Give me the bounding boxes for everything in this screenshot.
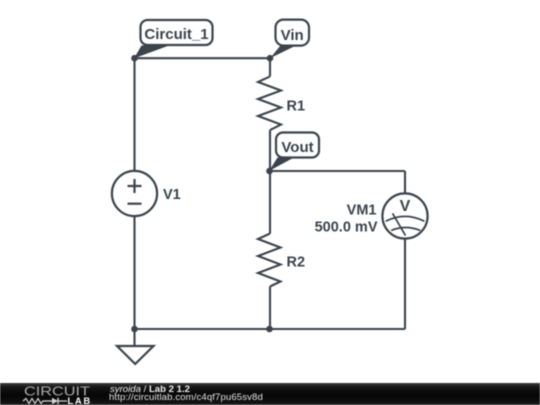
footer CircuitLab logo	[0, 383, 100, 405]
ground	[117, 346, 154, 364]
wire R2 bottom lead	[269, 287, 271, 330]
resistor R1	[258, 76, 281, 130]
svg-text:Vout: Vout	[281, 139, 313, 156]
svg-text:Vin: Vin	[281, 27, 304, 44]
svg-text:VM1: VM1	[347, 203, 377, 219]
voltage source V1	[112, 171, 157, 216]
svg-text:Circuit_1: Circuit_1	[144, 26, 208, 43]
svg-text:R1: R1	[287, 99, 306, 115]
voltmeter VM1	[382, 193, 427, 238]
wire R1 top lead	[269, 58, 271, 76]
svg-text:500.0 mV: 500.0 mV	[315, 220, 378, 236]
wire Vout horizontal to voltmeter	[270, 170, 405, 172]
wire ground stem	[133, 329, 135, 346]
svg-text:V1: V1	[163, 187, 181, 203]
svg-text:R2: R2	[287, 255, 306, 271]
wire top horizontal net Circuit_1/Vin	[135, 57, 271, 59]
node bottom-left junction dot	[131, 326, 138, 333]
node bottom-middle junction dot	[266, 326, 273, 333]
svg-text:LAB: LAB	[68, 396, 93, 405]
wire left vertical V1 top lead	[133, 58, 135, 171]
wire R2 top lead	[269, 171, 271, 234]
wire bottom horizontal net	[135, 328, 406, 330]
node Circuit_1 junction dot	[131, 55, 138, 62]
node Vout junction dot	[266, 168, 273, 175]
label Vin flag	[270, 20, 309, 59]
resistor R2	[258, 234, 281, 287]
label Vout flag	[269, 133, 319, 172]
svg-text:V: V	[400, 198, 411, 215]
wire V1 bottom lead	[133, 216, 135, 329]
wire voltmeter bottom lead	[404, 239, 406, 329]
label Circuit_1 flag	[134, 20, 213, 58]
wire voltmeter top lead	[404, 171, 406, 194]
node Vin junction dot	[267, 55, 274, 62]
wire R1 bottom lead	[269, 130, 271, 171]
footer attribution line	[110, 384, 190, 395]
footer url line	[109, 392, 263, 403]
footer bar	[0, 383, 540, 405]
